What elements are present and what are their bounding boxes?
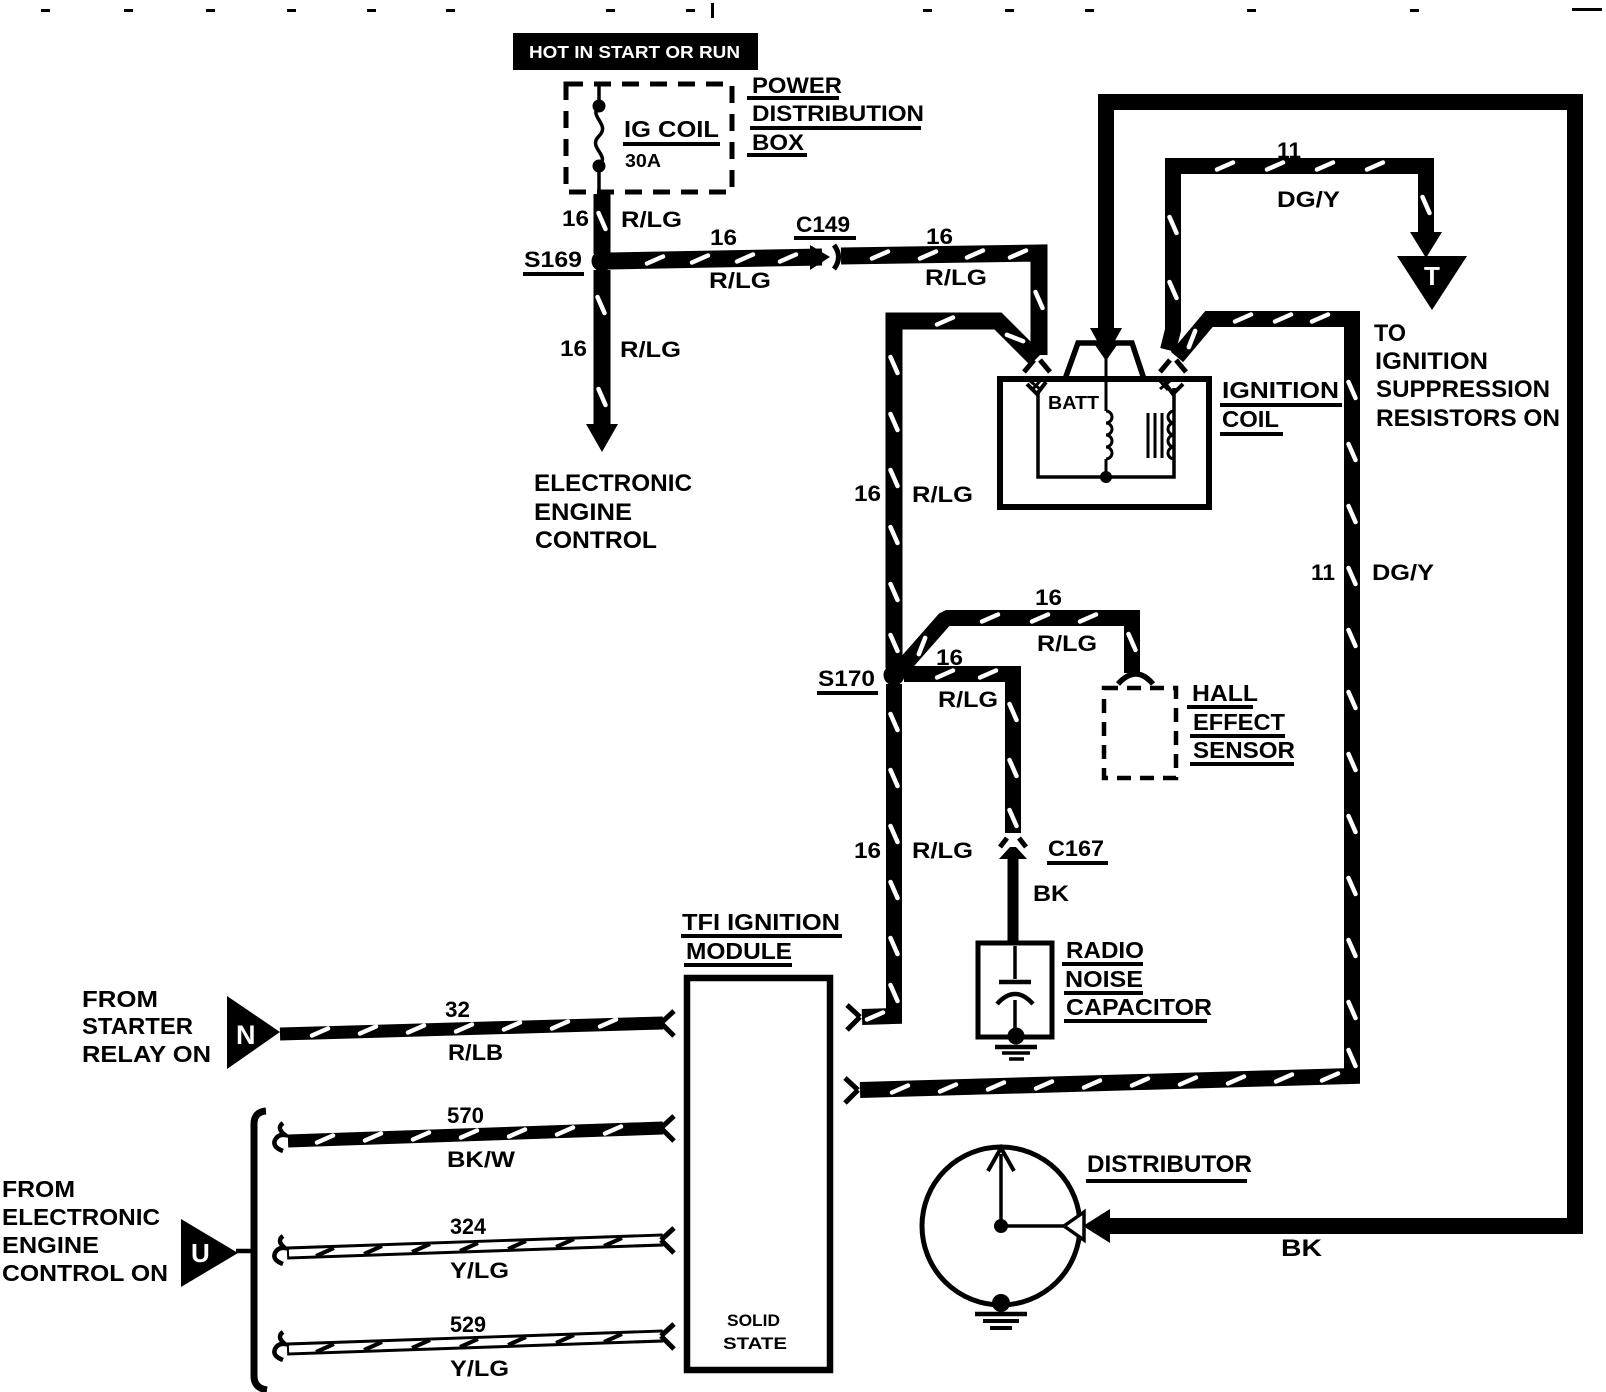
svg-text:T: T: [1424, 261, 1440, 291]
ground below radio noise capacitor: [995, 1047, 1037, 1059]
svg-text:TFI IGNITION: TFI IGNITION: [682, 909, 840, 935]
label 16 / C149 / 16 (top run): [709, 212, 987, 293]
connector fork at module left (Y/LG 529): [661, 1324, 674, 1349]
svg-text:DISTRIBUTOR: DISTRIBUTOR: [1087, 1151, 1252, 1178]
svg-text:R/LG: R/LG: [621, 207, 682, 232]
radio noise capacitor: [978, 943, 1052, 1045]
svg-text:32: 32: [445, 997, 470, 1022]
label TFI IGNITION MODULE: [681, 909, 842, 965]
svg-text:16: 16: [854, 481, 881, 506]
connector fork at module right (DG/Y): [845, 1078, 858, 1103]
wire vertical 16 R/LG to coil BATT (left long run): [891, 318, 1037, 669]
label 16 R/LG (hall run): [1035, 585, 1097, 656]
svg-text:S169: S169: [524, 247, 582, 272]
label 16 R/LG (fuse wire): [562, 206, 682, 232]
svg-text:HOT IN START OR RUN: HOT IN START OR RUN: [529, 42, 740, 62]
svg-text:COIL: COIL: [1222, 406, 1279, 432]
label DISTRIBUTOR: [1086, 1151, 1252, 1181]
svg-text:Y/LG: Y/LG: [450, 1258, 509, 1283]
svg-text:SUPPRESSION: SUPPRESSION: [1376, 376, 1550, 403]
connector fork at module left (BK/W): [661, 1116, 674, 1141]
svg-text:POWER: POWER: [752, 73, 842, 98]
label 16 R/LG (S170 right short): [936, 645, 998, 712]
wire fuse to S169: [599, 194, 606, 254]
svg-text:IGNITION: IGNITION: [1375, 348, 1488, 375]
svg-text:BK/W: BK/W: [447, 1147, 515, 1172]
svg-text:SENSOR: SENSOR: [1193, 737, 1295, 763]
label 32 R/LB: [445, 997, 503, 1065]
svg-text:C149: C149: [796, 212, 850, 237]
svg-text:TO: TO: [1374, 320, 1406, 347]
label 16 R/LG (S170 down run): [854, 838, 973, 863]
connector C167: [999, 838, 1027, 859]
svg-text:C167: C167: [1048, 836, 1104, 861]
svg-text:11: 11: [1277, 138, 1301, 163]
svg-text:DG/Y: DG/Y: [1372, 560, 1434, 585]
svg-text:ELECTRONIC: ELECTRONIC: [534, 470, 692, 497]
label S169: [523, 247, 584, 274]
connector fork at module left (R/LB): [661, 1011, 674, 1036]
arrow into coil TACH terminal: [1160, 360, 1186, 394]
label IGNITION COIL: [1220, 377, 1342, 434]
svg-text:16: 16: [854, 838, 881, 863]
svg-text:U: U: [191, 1238, 210, 1268]
arrow into coil BATT terminal: [1024, 360, 1050, 394]
svg-text:DISTRIBUTION: DISTRIBUTION: [752, 101, 924, 126]
svg-text:STATE: STATE: [723, 1334, 787, 1353]
node S170: [884, 665, 905, 686]
label 16 R/LG (left long run): [854, 481, 973, 507]
label 324 Y/LG: [450, 1214, 509, 1283]
svg-text:16: 16: [710, 225, 737, 250]
svg-text:FROM: FROM: [82, 986, 158, 1012]
TFI ignition module box: [687, 978, 830, 1370]
fuse IG COIL 30A: [593, 84, 606, 196]
label 570 BK/W: [447, 1103, 515, 1172]
wire 11 DG/Y to T arrow: [1168, 163, 1442, 351]
svg-text:EFFECT: EFFECT: [1193, 709, 1285, 735]
svg-text:CONTROL ON: CONTROL ON: [2, 1260, 168, 1286]
coil inner structure / windings: [1030, 356, 1174, 483]
svg-text:FROM: FROM: [2, 1176, 75, 1202]
svg-text:570: 570: [447, 1103, 484, 1128]
svg-text:R/LB: R/LB: [448, 1040, 503, 1065]
bracket (U connector group): [254, 1111, 267, 1390]
connector fork at module left (Y/LG): [661, 1228, 674, 1253]
label IG COIL / 30A: [623, 116, 720, 171]
N triangle connector (from starter relay): [227, 996, 280, 1069]
wire 529 Y/LG (hollow): [274, 1332, 663, 1360]
svg-text:BK: BK: [1281, 1235, 1323, 1262]
ignition coil box: [1000, 343, 1209, 507]
svg-text:NOISE: NOISE: [1065, 966, 1143, 992]
wire 570 BK/W: [274, 1123, 663, 1151]
svg-text:BK: BK: [1033, 881, 1069, 906]
label TO IGNITION SUPPRESSION RESISTORS ON: [1374, 320, 1560, 432]
label 16 R/LG (S169 down): [560, 336, 681, 362]
connector C149: [810, 245, 839, 270]
arrow into hall sensor: [1118, 674, 1153, 684]
wire S170 to hall effect sensor (16 R/LG): [900, 615, 1136, 674]
U triangle connector (from electronic engine control): [181, 1219, 254, 1287]
label HALL EFFECT SENSOR: [1187, 680, 1295, 764]
svg-text:S170: S170: [818, 666, 875, 691]
svg-text:16: 16: [560, 336, 587, 361]
label POWER DISTRIBUTION BOX: [747, 73, 924, 155]
svg-text:ENGINE: ENGINE: [534, 499, 632, 526]
wire 11 DG/Y right side long run to TFI module: [860, 315, 1356, 1093]
wire C149 to corner to ignition coil BATT (16 R/LG): [841, 251, 1043, 356]
label S170: [817, 666, 878, 693]
svg-text:RADIO: RADIO: [1066, 937, 1144, 963]
svg-text:Y/LG: Y/LG: [450, 1356, 509, 1381]
label 529 Y/LG: [450, 1312, 509, 1381]
svg-text:16: 16: [1035, 585, 1062, 610]
svg-text:529: 529: [450, 1312, 486, 1337]
svg-text:DG/Y: DG/Y: [1277, 187, 1340, 212]
wire S170 right to C167 (16 R/LG): [904, 671, 1017, 834]
label FROM ELECTRONIC ENGINE CONTROL ON: [2, 1176, 168, 1286]
distributor circle: [922, 1147, 1084, 1305]
label SOLID STATE: [723, 1311, 787, 1353]
label ELECTRONIC ENGINE CONTROL: [534, 470, 692, 554]
label FROM STARTER RELAY ON: [82, 986, 211, 1067]
node S169: [592, 251, 613, 272]
svg-text:R/LG: R/LG: [912, 482, 973, 507]
svg-text:R/LG: R/LG: [938, 687, 998, 712]
svg-text:BOX: BOX: [752, 130, 804, 155]
svg-text:STARTER: STARTER: [82, 1013, 193, 1039]
hall effect sensor (dashed box): [1104, 688, 1176, 778]
thick solid wire: top run, right edge down to distributor (BK): [1083, 102, 1575, 1243]
svg-text:ENGINE: ENGINE: [2, 1232, 99, 1258]
distributor ground: [975, 1294, 1027, 1328]
svg-text:16: 16: [926, 224, 953, 249]
svg-text:324: 324: [450, 1214, 487, 1239]
wire S170 down to TFI module: [862, 684, 898, 1020]
svg-text:IGNITION: IGNITION: [1222, 377, 1339, 403]
wire S169 down arrow to electronic engine control: [586, 270, 618, 452]
label 11 DG/Y (right run): [1311, 560, 1434, 585]
svg-text:CAPACITOR: CAPACITOR: [1066, 994, 1212, 1020]
svg-text:R/LG: R/LG: [925, 265, 987, 290]
svg-text:R/LG: R/LG: [912, 838, 973, 863]
svg-text:16: 16: [936, 645, 963, 670]
svg-text:N: N: [236, 1020, 256, 1050]
svg-text:MODULE: MODULE: [686, 938, 792, 964]
T connector triangle: [1397, 256, 1467, 310]
connector fork at module right (R/LG): [847, 1005, 860, 1030]
wire S169 to C149 (16 R/LG): [608, 255, 822, 264]
svg-text:R/LG: R/LG: [709, 268, 771, 293]
power distribution box (dashed): [566, 84, 732, 192]
svg-text:IG COIL: IG COIL: [624, 116, 719, 142]
svg-text:HALL: HALL: [1192, 680, 1258, 706]
svg-text:30A: 30A: [625, 151, 661, 171]
HOT IN START OR RUN box: [513, 33, 758, 70]
svg-text:11: 11: [1311, 560, 1335, 585]
svg-text:SOLID: SOLID: [727, 1311, 780, 1330]
svg-text:ELECTRONIC: ELECTRONIC: [2, 1204, 160, 1230]
wire BK to radio noise capacitor: [1008, 857, 1019, 945]
label RADIO NOISE CAPACITOR: [1062, 937, 1212, 1021]
top edge tick marks: [41, 3, 1602, 18]
svg-text:RELAY ON: RELAY ON: [82, 1041, 211, 1067]
svg-text:BATT: BATT: [1048, 393, 1099, 413]
svg-text:16: 16: [562, 206, 589, 231]
svg-text:RESISTORS ON: RESISTORS ON: [1376, 405, 1560, 432]
svg-text:R/LG: R/LG: [1037, 631, 1097, 656]
label C167: [1047, 836, 1108, 863]
label 11 DG/Y (top): [1277, 138, 1340, 212]
wire 324 Y/LG (hollow): [274, 1236, 663, 1264]
svg-text:CONTROL: CONTROL: [535, 527, 657, 554]
svg-text:R/LG: R/LG: [620, 337, 681, 362]
wire 32 R/LB from N to module: [280, 1020, 663, 1036]
